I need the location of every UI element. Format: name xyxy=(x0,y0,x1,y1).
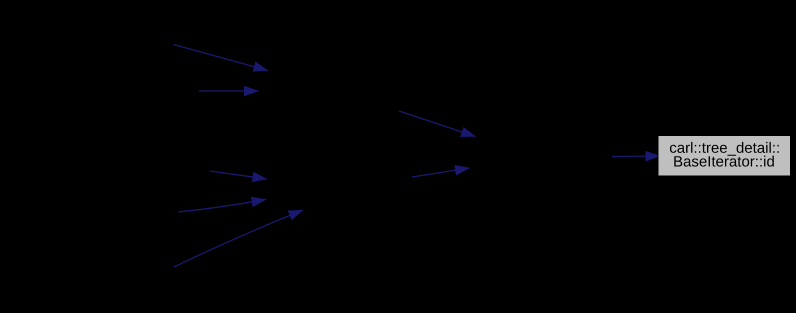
wire edge8 level3 node -> BaseIterator::id node xyxy=(612,155,660,158)
wire edge3 middle-top node -> level3 node xyxy=(399,111,476,137)
wire edge7 caller5 -> middle-bottom node (curved) xyxy=(174,210,303,267)
wire edge1 caller1 -> middle-top node xyxy=(174,45,269,71)
wire edge6 caller4 -> middle-bottom node xyxy=(178,199,266,212)
wire edge2 caller2 -> middle-top node xyxy=(199,90,259,92)
wire edge4 middle-bottom node -> level3 node xyxy=(412,168,470,177)
node label line1: carl::tree_detail:: xyxy=(670,142,779,156)
node carl::tree_detail::BaseIterator::id (current node, grey) xyxy=(658,136,791,177)
node label line2: BaseIterator::id xyxy=(674,156,774,167)
wire edge5 caller3 -> middle-bottom node xyxy=(210,171,267,179)
